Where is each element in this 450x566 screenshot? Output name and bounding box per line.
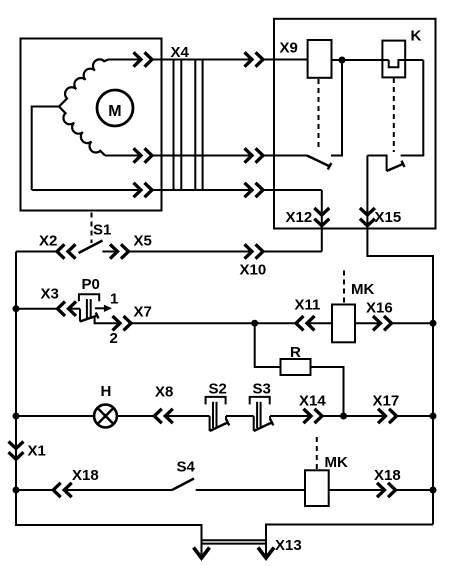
svg-text:X5: X5 <box>134 233 152 250</box>
svg-text:X1: X1 <box>28 443 46 460</box>
svg-text:MK: MK <box>351 281 374 298</box>
svg-text:2: 2 <box>110 330 118 347</box>
connector X18 left <box>53 467 99 497</box>
pushbutton S3 <box>250 381 274 432</box>
winding L2 (lower) <box>59 107 105 156</box>
svg-text:S3: S3 <box>253 381 271 398</box>
node junction <box>339 57 346 64</box>
wire X12 drop <box>321 190 323 252</box>
connector X7 <box>113 304 152 331</box>
wire R to X14 node <box>311 367 344 416</box>
relay K <box>382 27 423 77</box>
wire X8 to S2 <box>165 415 209 417</box>
svg-text:X8: X8 <box>155 384 173 401</box>
switch S1 <box>79 213 112 254</box>
wire lamp to X8 <box>117 415 154 417</box>
svg-text:S1: S1 <box>93 222 111 239</box>
wire S1 row left <box>16 251 57 253</box>
connector X15 <box>360 208 401 226</box>
svg-text:X18: X18 <box>72 467 99 484</box>
svg-text:S4: S4 <box>177 459 196 476</box>
node R to H row <box>340 413 347 420</box>
contactor coil MK (upper) <box>332 271 374 343</box>
svg-text:X15: X15 <box>375 209 402 226</box>
connector X13 <box>194 537 302 558</box>
connector arrow row2 right <box>245 148 264 162</box>
connector X1 <box>9 442 46 460</box>
wire X3 row <box>16 308 58 310</box>
wire row1 <box>108 59 308 61</box>
svg-text:X14: X14 <box>299 393 326 410</box>
svg-text:X11: X11 <box>295 297 321 314</box>
svg-text:X17: X17 <box>373 393 400 410</box>
wire X7 to node <box>131 322 255 324</box>
connector X14 <box>299 393 326 424</box>
wire X9 contact riser <box>331 60 342 156</box>
left bus wire <box>16 252 202 558</box>
wire K right drop <box>401 60 424 156</box>
wire right bus bottom <box>266 525 433 558</box>
wire node to X11 <box>255 322 296 324</box>
wire node to X17 <box>344 415 386 417</box>
node left H row <box>13 413 20 420</box>
lamp H <box>94 383 117 427</box>
connector X16 <box>366 300 393 331</box>
svg-text:X13: X13 <box>275 537 302 554</box>
connector X3 <box>41 286 77 316</box>
connector X8 <box>154 384 173 424</box>
svg-text:H: H <box>101 383 112 400</box>
node right bus S4 row <box>430 487 437 494</box>
node left S4 row <box>13 487 20 494</box>
node left P0 row <box>13 305 20 312</box>
pressure switch P0 <box>69 276 121 347</box>
svg-text:MK: MK <box>325 454 348 471</box>
connector X10 <box>240 244 267 278</box>
connector arrow row3 left <box>134 183 153 197</box>
node Y (star point) wire <box>32 107 59 191</box>
connector arrow row3 right <box>245 183 264 197</box>
connector arrow row1 right <box>245 52 264 66</box>
contactor coil MK (lower) <box>305 437 348 506</box>
connector X4 cable lines <box>171 44 203 190</box>
svg-text:K: K <box>411 27 422 44</box>
resistor R <box>281 344 311 375</box>
wire H row left <box>16 415 94 417</box>
wire X14 to node <box>322 415 344 417</box>
connector arrow row2 left <box>134 148 153 162</box>
connector X2 <box>39 233 76 259</box>
wire row2 <box>105 155 307 157</box>
relay coil X9 <box>280 39 332 78</box>
node R branch <box>251 320 258 327</box>
connector X18 right <box>374 467 401 497</box>
connector arrow row1 left <box>134 52 153 66</box>
wire X11 to MK <box>307 322 332 324</box>
wire row3 <box>32 189 322 191</box>
svg-text:1: 1 <box>110 291 118 308</box>
wire X10 to X12 <box>263 251 322 253</box>
wire X16 to right bus <box>392 322 434 324</box>
svg-text:X18: X18 <box>374 467 401 484</box>
wire R branch <box>255 323 281 367</box>
contact K1 (X9 relay) blade <box>307 156 331 170</box>
svg-text:S2: S2 <box>209 381 227 398</box>
svg-text:X2: X2 <box>39 233 57 250</box>
connector X5 <box>102 233 151 259</box>
connector X11 <box>295 297 321 331</box>
wire X15 drop <box>367 156 433 525</box>
wire S4 to MK <box>196 489 305 491</box>
contact K2 (relay K) <box>367 156 404 172</box>
switch S4 <box>172 459 196 491</box>
wire S2 to S3 <box>226 415 254 417</box>
wire X17 to right bus <box>397 415 434 417</box>
node right bus H row <box>430 413 437 420</box>
motor M1 <box>97 90 133 126</box>
wire X18 to right bus <box>396 489 434 491</box>
wire MK to X16 <box>355 322 381 324</box>
dashed link K <box>393 78 395 152</box>
connector X17 <box>373 393 400 424</box>
motor enclosure box <box>21 39 162 211</box>
wire S4 row left <box>16 489 53 491</box>
wire X5 to X10 <box>129 251 253 253</box>
svg-text:X10: X10 <box>240 262 267 279</box>
dashed link X9 <box>318 79 320 150</box>
svg-text:X3: X3 <box>41 286 59 303</box>
winding L1 (upper) <box>59 59 108 106</box>
connector X12 <box>286 208 330 226</box>
wire X9 to K <box>332 59 389 61</box>
pushbutton S2 <box>206 381 230 432</box>
wire X18 to S4 <box>64 489 172 491</box>
svg-text:X9: X9 <box>280 39 298 56</box>
svg-text:X4: X4 <box>171 44 190 61</box>
svg-text:X7: X7 <box>134 304 152 321</box>
svg-text:X12: X12 <box>286 209 313 226</box>
svg-text:M: M <box>108 103 121 120</box>
svg-text:X16: X16 <box>366 300 393 317</box>
node right bus P0 row <box>430 320 437 327</box>
relay box enclosure <box>274 19 436 229</box>
svg-text:R: R <box>290 344 301 361</box>
wire MK to X18 right <box>329 489 385 491</box>
svg-text:P0: P0 <box>82 276 100 293</box>
wire S3 to X14 <box>270 415 311 417</box>
